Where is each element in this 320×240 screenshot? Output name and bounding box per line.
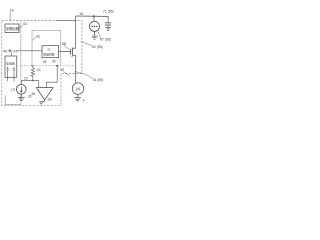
svg-text:40: 40 (3, 49, 7, 53)
svg-text:+: + (38, 89, 40, 93)
leader for 1b (9, 13, 12, 21)
svg-text:62 (55): 62 (55) (92, 45, 103, 49)
cell symbol right (13, 67, 15, 69)
svg-text:28: 28 (48, 97, 52, 101)
leader 62 (81, 41, 92, 46)
riser to charge rail (75, 16, 77, 21)
wire from battery row to cell box (11, 52, 13, 56)
main vertical wire 62 (75, 21, 77, 49)
svg-text:26: 26 (31, 92, 35, 96)
node on bus (56, 65, 58, 67)
resistor 24 (31, 66, 34, 78)
dashed device boundary 1 (2, 21, 82, 106)
comparator input rail left (21, 81, 39, 88)
transistor 37 (70, 49, 72, 55)
capacitor 71 (107, 16, 109, 22)
svg-text:61 (60): 61 (60) (93, 78, 104, 82)
leader 67 (98, 32, 100, 39)
mid bus dashed 2 (21, 65, 75, 67)
leader for 41 (19, 25, 22, 28)
output and ground of comparator (44, 100, 46, 101)
svg-text:32: 32 (47, 48, 51, 52)
svg-text:M: M (76, 86, 80, 91)
svg-text:67 (56): 67 (56) (100, 38, 111, 42)
wire from battery row into control box 33 (17, 50, 42, 52)
svg-text:電池組: 電池組 (6, 61, 15, 66)
battery terminals below box (7, 77, 9, 81)
ground under connector (94, 31, 96, 36)
control circuit box 40 (5, 24, 19, 32)
charge rail (76, 15, 108, 17)
svg-text:41: 41 (23, 21, 28, 26)
svg-text:71 (55): 71 (55) (103, 10, 114, 14)
svg-text:41: 41 (13, 49, 17, 53)
current source 22 (20, 81, 22, 85)
ground under current source (20, 94, 22, 97)
big control unit box 3 (32, 30, 61, 65)
top rail wire (56, 20, 76, 22)
switch control box 33 (42, 46, 59, 58)
wire from bus node down to comparator (47, 66, 58, 88)
svg-text:23: 23 (24, 77, 28, 81)
leader for 31 (32, 37, 35, 40)
wire to connector (93, 16, 95, 21)
svg-text:24: 24 (37, 68, 41, 72)
svg-text:1b: 1b (9, 8, 14, 13)
svg-text:制御回路: 制御回路 (43, 53, 54, 57)
svg-text:64: 64 (80, 12, 84, 16)
cell symbol left (7, 67, 9, 69)
svg-text:32: 32 (60, 67, 65, 72)
svg-text:34: 34 (43, 60, 47, 64)
motor M (72, 83, 83, 94)
junction node (93, 15, 95, 17)
battery cell box (5, 56, 17, 77)
battery symbol between 40 and 41 (8, 50, 10, 52)
leader 61 (76, 72, 92, 79)
svg-text:(ｲ): (ｲ) (11, 87, 15, 91)
svg-text:35: 35 (52, 60, 56, 64)
dashed battery-pack boundary 4 (5, 85, 21, 105)
svg-text:制御回路: 制御回路 (6, 26, 20, 31)
svg-text:31: 31 (36, 34, 41, 39)
resistor joins rail (32, 77, 34, 80)
ground under capacitor (105, 27, 111, 29)
connector circle 67 (90, 21, 100, 31)
wire: battery sense vertical (20, 22, 22, 84)
comparator 25 (36, 88, 53, 100)
gate wire from box to transistor (59, 51, 71, 53)
leader for 36 (64, 46, 69, 50)
svg-text:9: 9 (83, 99, 85, 103)
ground under motor (77, 94, 79, 97)
leader 32 (64, 72, 70, 76)
